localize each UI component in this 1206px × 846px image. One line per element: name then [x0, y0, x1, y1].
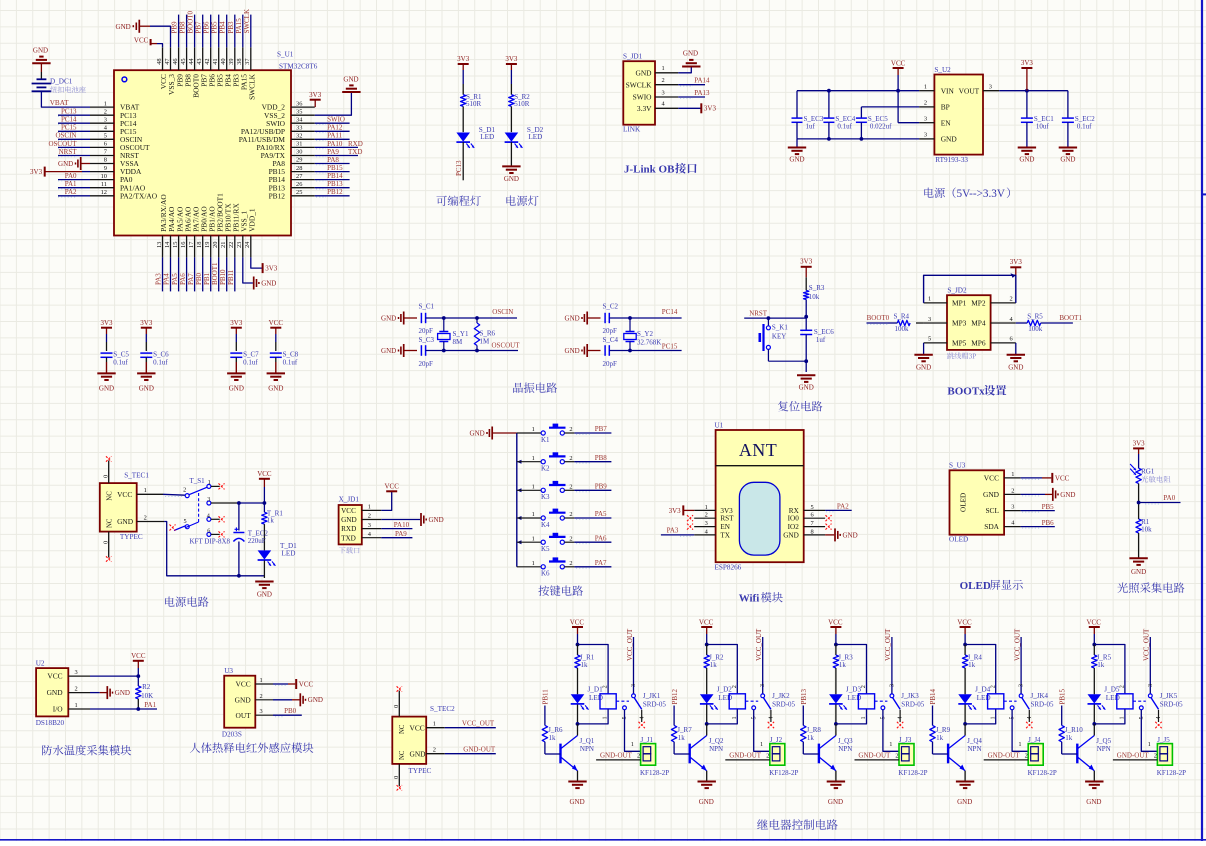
svg-text:PB7: PB7 — [195, 21, 203, 34]
svg-text:TYPEC: TYPEC — [120, 533, 143, 541]
svg-text:PB13: PB13 — [327, 180, 343, 188]
svg-text:RXD: RXD — [341, 525, 356, 533]
svg-text:1: 1 — [1018, 741, 1021, 748]
svg-text:3: 3 — [630, 684, 637, 687]
svg-text:1: 1 — [989, 716, 996, 719]
svg-text:K3: K3 — [541, 493, 550, 501]
svg-text:PA6: PA6 — [595, 534, 607, 542]
svg-text:PA9: PA9 — [327, 148, 339, 156]
svg-text:VCC_OUT: VCC_OUT — [626, 628, 634, 661]
svg-text:GND: GND — [308, 696, 323, 704]
svg-text:U3: U3 — [224, 667, 233, 675]
svg-text:PA7: PA7 — [187, 273, 195, 285]
svg-text:S_U2: S_U2 — [934, 66, 951, 74]
svg-text:1k: 1k — [1097, 661, 1105, 669]
svg-text:GND: GND — [1060, 156, 1075, 164]
svg-text:PB9: PB9 — [171, 21, 179, 34]
svg-text:12: 12 — [101, 189, 107, 196]
svg-text:STM32C8T6: STM32C8T6 — [279, 63, 318, 71]
svg-text:4: 4 — [638, 716, 645, 719]
svg-text:NC: NC — [399, 724, 406, 734]
svg-text:1k: 1k — [710, 661, 718, 669]
svg-text:VCC: VCC — [699, 619, 714, 627]
svg-text:VCC: VCC — [257, 470, 272, 478]
svg-text:VIN: VIN — [941, 86, 955, 95]
svg-text:2: 2 — [989, 685, 996, 688]
svg-text:SRD-05: SRD-05 — [643, 700, 666, 708]
svg-text:J_Q5: J_Q5 — [1096, 737, 1111, 745]
svg-text:D203S: D203S — [222, 731, 242, 739]
svg-text:VCC: VCC — [341, 507, 356, 515]
svg-text:GND: GND — [635, 68, 652, 77]
svg-text:PB8: PB8 — [595, 454, 608, 462]
svg-text:SWCLK: SWCLK — [243, 9, 251, 33]
svg-text:PA10: PA10 — [394, 521, 410, 529]
svg-text:GND: GND — [341, 516, 357, 524]
svg-text:PB12: PB12 — [671, 688, 679, 704]
svg-text:PA1: PA1 — [144, 701, 156, 709]
svg-text:GND: GND — [1060, 491, 1075, 499]
svg-text:PB6: PB6 — [203, 21, 211, 34]
svg-text:GND: GND — [268, 385, 283, 393]
svg-text:9: 9 — [104, 165, 107, 172]
svg-text:SWCLK: SWCLK — [626, 80, 653, 89]
svg-text:33: 33 — [296, 125, 302, 132]
svg-text:GND: GND — [504, 175, 519, 183]
svg-text:PA5: PA5 — [171, 273, 179, 285]
svg-text:GND: GND — [33, 46, 48, 54]
svg-text:PB9: PB9 — [595, 483, 608, 491]
svg-text:PC13: PC13 — [455, 160, 463, 176]
svg-text:S_C1: S_C1 — [419, 303, 435, 311]
svg-text:S_C2: S_C2 — [603, 303, 619, 311]
svg-text:3V3: 3V3 — [457, 55, 470, 63]
svg-text:5: 5 — [928, 336, 931, 343]
svg-text:3: 3 — [989, 84, 992, 91]
svg-text:40: 40 — [220, 58, 227, 64]
svg-text:K4: K4 — [541, 521, 550, 529]
svg-text:3: 3 — [1018, 684, 1025, 687]
svg-text:S_C5: S_C5 — [113, 351, 129, 359]
svg-text:45: 45 — [180, 58, 187, 64]
svg-text:1: 1 — [889, 741, 892, 748]
svg-text:44: 44 — [188, 58, 195, 65]
svg-text:GND: GND — [565, 314, 580, 322]
svg-text:1: 1 — [208, 479, 211, 486]
svg-text:LED: LED — [282, 550, 296, 558]
svg-text:NPN: NPN — [709, 745, 723, 753]
svg-text:GND-OUT: GND-OUT — [988, 752, 1021, 760]
svg-text:VCC: VCC — [131, 652, 146, 660]
svg-text:2: 2 — [705, 512, 708, 519]
svg-text:2: 2 — [260, 693, 263, 700]
svg-text:1: 1 — [433, 721, 436, 728]
svg-text:OSCOUT: OSCOUT — [492, 341, 521, 349]
svg-text:J_JK3: J_JK3 — [901, 692, 919, 700]
svg-text:S_R3: S_R3 — [809, 284, 825, 292]
svg-text:GND: GND — [58, 160, 73, 168]
svg-text:5: 5 — [811, 504, 814, 511]
svg-text:5V-->3.3V: 5V-->3.3V — [957, 188, 1005, 200]
svg-text:SDA: SDA — [984, 522, 999, 531]
svg-text:5: 5 — [184, 518, 187, 525]
svg-text:1: 1 — [602, 716, 609, 719]
svg-text:25: 25 — [296, 189, 302, 196]
svg-text:EN: EN — [941, 118, 952, 127]
svg-text:LED: LED — [847, 694, 861, 702]
svg-text:KF128-2P: KF128-2P — [1028, 769, 1057, 777]
svg-text:GND: GND — [983, 490, 1000, 499]
svg-text:VCC_OUT: VCC_OUT — [462, 720, 495, 728]
svg-text:J_R10: J_R10 — [1065, 726, 1083, 734]
svg-text:VCC: VCC — [828, 619, 843, 627]
svg-text:8: 8 — [104, 157, 107, 164]
svg-text:J_Q3: J_Q3 — [838, 737, 853, 745]
svg-text:J_J5: J_J5 — [1157, 736, 1170, 744]
svg-text:GND: GND — [235, 695, 252, 704]
svg-text:1k: 1k — [968, 661, 976, 669]
svg-text:220uF: 220uF — [248, 537, 266, 545]
svg-text:8M: 8M — [453, 338, 464, 346]
svg-text:PA5: PA5 — [595, 510, 607, 518]
svg-text:S_C4: S_C4 — [603, 336, 619, 344]
svg-text:21: 21 — [220, 242, 227, 248]
svg-text:KF128-2P: KF128-2P — [640, 769, 669, 777]
svg-text:1: 1 — [662, 65, 665, 72]
svg-text:GND: GND — [139, 385, 154, 393]
svg-text:17: 17 — [188, 241, 195, 248]
svg-text:GND: GND — [941, 135, 958, 144]
svg-text:1: 1 — [1119, 716, 1126, 719]
svg-text:0.1uf: 0.1uf — [1077, 123, 1092, 131]
svg-text:VCC: VCC — [384, 483, 399, 491]
svg-text:31: 31 — [296, 141, 302, 148]
svg-text:PC14: PC14 — [662, 308, 678, 316]
svg-text:2: 2 — [104, 108, 107, 115]
svg-text:1: 1 — [532, 484, 535, 491]
svg-text:1: 1 — [860, 716, 867, 719]
svg-text:TXD: TXD — [348, 148, 362, 156]
svg-text:S_R6: S_R6 — [480, 330, 496, 338]
svg-text:J_Q1: J_Q1 — [580, 737, 595, 745]
svg-text:BOOT1: BOOT1 — [1059, 314, 1082, 322]
svg-text:0.1uf: 0.1uf — [113, 359, 128, 367]
svg-text:2: 2 — [569, 535, 572, 542]
svg-text:MP5: MP5 — [952, 339, 967, 348]
svg-text:TYPEC: TYPEC — [409, 767, 432, 775]
svg-text:GND: GND — [229, 385, 244, 393]
svg-text:100k: 100k — [1028, 325, 1043, 333]
svg-text:6: 6 — [811, 512, 814, 519]
svg-text:47: 47 — [164, 58, 171, 65]
svg-text:1: 1 — [705, 504, 708, 511]
svg-text:28: 28 — [296, 165, 302, 172]
svg-text:NC: NC — [399, 750, 406, 760]
svg-text:GND: GND — [799, 384, 814, 392]
svg-text:LED: LED — [480, 133, 494, 141]
svg-text:34: 34 — [296, 116, 303, 123]
svg-text:3V3: 3V3 — [30, 168, 43, 176]
svg-text:OLED: OLED — [960, 580, 991, 592]
svg-text:4: 4 — [1155, 716, 1162, 719]
svg-text:GND: GND — [570, 798, 585, 806]
svg-text:2: 2 — [602, 685, 609, 688]
svg-text:2: 2 — [569, 484, 572, 491]
svg-text:3V3: 3V3 — [100, 319, 113, 327]
svg-text:KF128-2P: KF128-2P — [898, 769, 927, 777]
svg-text:TXD: TXD — [341, 534, 356, 542]
svg-text:J_JK4: J_JK4 — [1031, 692, 1049, 700]
svg-text:RG1: RG1 — [1141, 468, 1155, 476]
svg-text:NRST: NRST — [749, 309, 768, 317]
svg-text:PB12: PB12 — [269, 191, 286, 200]
svg-text:1: 1 — [1148, 741, 1151, 748]
svg-text:PB14: PB14 — [929, 688, 937, 704]
svg-text:1uf: 1uf — [816, 336, 826, 344]
svg-text:3: 3 — [1147, 684, 1154, 687]
svg-text:20pF: 20pF — [603, 327, 618, 335]
svg-text:0.1uf: 0.1uf — [153, 359, 168, 367]
svg-text:IO2: IO2 — [788, 523, 800, 531]
svg-text:2: 2 — [1010, 296, 1013, 303]
svg-text:J_JK1: J_JK1 — [643, 692, 661, 700]
svg-text:1: 1 — [532, 535, 535, 542]
svg-text:1M: 1M — [480, 338, 491, 346]
svg-text:GND: GND — [1131, 568, 1146, 576]
svg-text:VCC: VCC — [1087, 619, 1102, 627]
svg-text:2: 2 — [860, 685, 867, 688]
svg-text:LED: LED — [718, 694, 732, 702]
svg-text:PA7: PA7 — [595, 559, 607, 567]
svg-text:PB13: PB13 — [800, 688, 808, 704]
svg-text:3V3: 3V3 — [1021, 59, 1034, 67]
svg-text:13: 13 — [156, 242, 163, 248]
svg-text:1k: 1k — [807, 734, 815, 742]
svg-text:20pF: 20pF — [419, 360, 434, 368]
svg-text:20pF: 20pF — [603, 360, 618, 368]
svg-text:2: 2 — [569, 426, 572, 433]
svg-text:PA0: PA0 — [65, 172, 77, 180]
svg-text:PA0: PA0 — [1163, 494, 1175, 502]
svg-text:GND: GND — [565, 347, 580, 355]
svg-text:ANT: ANT — [739, 440, 777, 460]
svg-text:PC15: PC15 — [662, 342, 678, 350]
svg-text:PB6: PB6 — [1042, 519, 1055, 527]
svg-text:2: 2 — [924, 100, 927, 107]
svg-text:10: 10 — [101, 173, 107, 180]
svg-text:0: 0 — [393, 776, 400, 779]
svg-text:3: 3 — [662, 89, 665, 96]
svg-text:LED: LED — [528, 133, 542, 141]
svg-text:PB8: PB8 — [179, 21, 187, 34]
svg-text:3V3: 3V3 — [1133, 440, 1146, 448]
svg-text:1: 1 — [532, 560, 535, 567]
svg-text:2: 2 — [183, 487, 186, 494]
svg-text:2: 2 — [1119, 685, 1126, 688]
svg-text:GND: GND — [429, 516, 444, 524]
svg-text:3P: 3P — [969, 353, 977, 361]
svg-text:20pF: 20pF — [419, 327, 434, 335]
svg-text:GND-OUT: GND-OUT — [729, 752, 762, 760]
svg-text:U2: U2 — [36, 660, 45, 668]
svg-text:GND: GND — [1008, 364, 1023, 372]
svg-text:6: 6 — [104, 141, 107, 148]
svg-text:OSCIN: OSCIN — [492, 308, 513, 316]
svg-text:PA9: PA9 — [395, 530, 407, 538]
svg-text:3: 3 — [75, 669, 78, 676]
svg-text:S_EC6: S_EC6 — [814, 328, 834, 336]
svg-text:S_TEC2: S_TEC2 — [430, 705, 455, 713]
svg-text:LED: LED — [589, 694, 603, 702]
svg-text:S_Y1: S_Y1 — [453, 330, 469, 338]
svg-text:BOOTx: BOOTx — [947, 386, 985, 398]
svg-text:DS18B20: DS18B20 — [36, 719, 65, 727]
svg-text:NPN: NPN — [1097, 745, 1111, 753]
svg-text:29: 29 — [296, 157, 302, 164]
svg-text:VCC_OUT: VCC_OUT — [755, 628, 763, 661]
svg-text:PA8: PA8 — [327, 156, 339, 164]
svg-text:SRD-05: SRD-05 — [1160, 700, 1183, 708]
svg-text:EN: EN — [720, 523, 730, 531]
svg-text:1: 1 — [928, 296, 931, 303]
svg-text:2: 2 — [766, 753, 769, 760]
svg-text:BOOT0: BOOT0 — [187, 10, 195, 33]
svg-text:1: 1 — [760, 741, 763, 748]
svg-text:OSCIN: OSCIN — [55, 132, 76, 140]
svg-text:NPN: NPN — [968, 745, 982, 753]
svg-text:3V3: 3V3 — [140, 319, 153, 327]
svg-text:PA2: PA2 — [65, 188, 77, 196]
svg-text:LED: LED — [977, 694, 991, 702]
svg-text:GND: GND — [47, 688, 64, 697]
svg-text:K5: K5 — [541, 545, 550, 553]
svg-text:1: 1 — [532, 455, 535, 462]
svg-text:GND: GND — [828, 798, 843, 806]
svg-text:S_K1: S_K1 — [772, 324, 788, 332]
svg-text:PA14: PA14 — [694, 77, 710, 85]
svg-text:S_C3: S_C3 — [419, 336, 435, 344]
svg-text:3: 3 — [368, 522, 371, 529]
svg-text:1: 1 — [731, 716, 738, 719]
svg-text:VCC: VCC — [117, 490, 132, 499]
svg-text:GND: GND — [257, 591, 272, 599]
svg-text:J_J2: J_J2 — [770, 736, 783, 744]
svg-text:PC14: PC14 — [61, 116, 77, 124]
svg-text:SRD-05: SRD-05 — [772, 700, 795, 708]
svg-text:6: 6 — [207, 527, 210, 534]
svg-text:2: 2 — [637, 753, 640, 760]
svg-text:SCL: SCL — [985, 506, 999, 515]
svg-text:0.022uf: 0.022uf — [870, 123, 892, 131]
svg-text:3: 3 — [260, 708, 263, 715]
svg-text:GND: GND — [789, 156, 804, 164]
svg-text:RST: RST — [720, 515, 734, 523]
svg-text:PA3: PA3 — [155, 273, 163, 285]
svg-text:GND-OUT: GND-OUT — [1117, 752, 1150, 760]
svg-text:46: 46 — [172, 58, 179, 64]
svg-text:3V3: 3V3 — [800, 258, 813, 266]
svg-text:PB3: PB3 — [227, 21, 235, 34]
svg-text:SWIO: SWIO — [327, 116, 345, 124]
svg-text:BOOT1: BOOT1 — [211, 262, 219, 285]
svg-text:J_R8: J_R8 — [807, 726, 822, 734]
svg-text:2: 2 — [433, 747, 436, 754]
svg-text:3V3: 3V3 — [230, 319, 243, 327]
svg-text:T_S1: T_S1 — [190, 477, 206, 485]
svg-text:GND: GND — [916, 364, 931, 372]
svg-text:GND: GND — [381, 314, 396, 322]
svg-text:GND: GND — [699, 798, 714, 806]
svg-text:GND: GND — [343, 76, 358, 84]
svg-text:J_R9: J_R9 — [936, 726, 951, 734]
svg-text:PA13: PA13 — [694, 89, 710, 97]
svg-text:PA15: PA15 — [235, 18, 243, 34]
svg-text:S_U1: S_U1 — [277, 51, 294, 59]
svg-text:J_JK5: J_JK5 — [1160, 692, 1178, 700]
svg-text:4: 4 — [768, 716, 775, 719]
svg-text:GND: GND — [843, 531, 858, 539]
svg-text:1: 1 — [1011, 471, 1014, 478]
svg-text:2: 2 — [569, 455, 572, 462]
svg-text:3V3: 3V3 — [505, 55, 518, 63]
svg-text:S_R4: S_R4 — [894, 313, 910, 321]
svg-text:RT9193-33: RT9193-33 — [935, 156, 968, 164]
svg-text:14: 14 — [164, 241, 171, 248]
svg-text:OLED: OLED — [960, 493, 968, 512]
svg-text:27: 27 — [296, 173, 303, 180]
svg-text:2: 2 — [1025, 753, 1028, 760]
svg-text:PB5: PB5 — [211, 21, 219, 34]
svg-text:PA2: PA2 — [837, 503, 849, 511]
svg-text:KF128-2P: KF128-2P — [769, 769, 798, 777]
svg-text:2: 2 — [1154, 753, 1157, 760]
svg-text:GND: GND — [116, 23, 131, 31]
svg-text:NRST: NRST — [59, 148, 78, 156]
svg-text:39: 39 — [228, 58, 235, 64]
svg-text:ESP8266: ESP8266 — [715, 564, 742, 572]
svg-text:VCC: VCC — [984, 474, 999, 483]
svg-text:MP2: MP2 — [971, 299, 986, 308]
svg-text:MP1: MP1 — [952, 299, 967, 308]
svg-text:TX: TX — [720, 531, 730, 539]
svg-text:RX: RX — [789, 507, 800, 515]
svg-text:GND: GND — [115, 689, 130, 697]
svg-text:VCC: VCC — [134, 37, 149, 45]
svg-text:D_DC1: D_DC1 — [50, 77, 73, 85]
svg-text:3: 3 — [924, 116, 927, 123]
svg-text:GND: GND — [783, 531, 799, 539]
svg-text:VCC: VCC — [269, 319, 284, 327]
svg-text:3: 3 — [207, 496, 210, 503]
svg-text:0: 0 — [102, 475, 109, 478]
svg-text:VDD_1: VDD_1 — [248, 208, 257, 232]
svg-text:VCC: VCC — [570, 619, 585, 627]
svg-text:1: 1 — [924, 84, 927, 91]
svg-text:4: 4 — [897, 716, 904, 719]
svg-text:3V3: 3V3 — [704, 105, 717, 113]
svg-text:10k: 10k — [809, 293, 820, 301]
svg-text:16: 16 — [180, 242, 187, 248]
svg-text:3V3: 3V3 — [309, 91, 322, 99]
svg-text:PB15: PB15 — [327, 164, 343, 172]
svg-text:32.768K: 32.768K — [637, 339, 661, 347]
svg-text:PC15: PC15 — [61, 124, 77, 132]
svg-text:SRD-05: SRD-05 — [901, 700, 924, 708]
svg-text:1: 1 — [104, 100, 107, 107]
svg-text:GND: GND — [261, 279, 276, 287]
svg-text:1uf: 1uf — [806, 123, 816, 131]
svg-text:2: 2 — [368, 513, 371, 520]
